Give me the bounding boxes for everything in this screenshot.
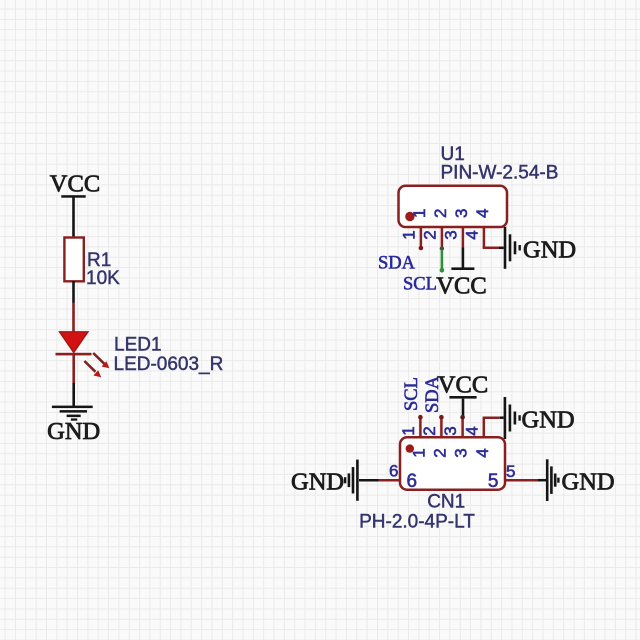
svg-text:4: 4 — [462, 230, 481, 239]
svg-text:1: 1 — [399, 230, 418, 239]
U1 pin 3 — [462, 227, 465, 248]
U1 pin 4 — [483, 227, 486, 248]
svg-text:VCC: VCC — [438, 371, 488, 398]
wire U1 pin 4 to ground — [483, 247, 499, 250]
ground (CN1 pin 5) — [538, 459, 615, 501]
wire SCL net (green) — [440, 246, 445, 272]
svg-text:3: 3 — [452, 209, 471, 218]
svg-text:CN1: CN1 — [427, 492, 465, 513]
svg-text:GND: GND — [523, 237, 576, 264]
CN1 pin 3 end dot — [460, 415, 465, 420]
connector U1 body — [399, 186, 508, 227]
svg-text:PH-2.0-4P-LT: PH-2.0-4P-LT — [359, 511, 475, 532]
svg-text:SDA: SDA — [378, 253, 416, 273]
CN1 pin 1 — [419, 418, 422, 438]
CN1 pin 2 end dot — [439, 415, 444, 420]
svg-text:SCL: SCL — [402, 377, 422, 411]
svg-text:VCC: VCC — [50, 171, 100, 198]
U1 pin 2 — [441, 227, 444, 248]
svg-text:10K: 10K — [86, 268, 120, 289]
CN1 pin 6 — [378, 479, 400, 482]
U1 pin 1 end dot — [419, 246, 424, 251]
CN1 pin 5 — [505, 479, 541, 482]
svg-text:5: 5 — [506, 462, 515, 481]
power flag VCC (left circuit) — [50, 171, 100, 198]
svg-text:3: 3 — [452, 448, 471, 457]
LED LED1 — [56, 303, 110, 384]
svg-text:LED1: LED1 — [114, 335, 162, 356]
CN1 pin-1 orientation dot — [406, 444, 414, 452]
connector CN1 body — [400, 437, 505, 489]
svg-text:1: 1 — [410, 209, 429, 218]
svg-text:2: 2 — [430, 448, 449, 457]
svg-text:2: 2 — [431, 209, 450, 218]
svg-text:PIN-W-2.54-B: PIN-W-2.54-B — [441, 162, 559, 183]
svg-text:GND: GND — [291, 468, 344, 495]
power flag VCC (CN1 pin 3) — [438, 371, 488, 417]
svg-text:GND: GND — [47, 418, 100, 445]
svg-text:GND: GND — [562, 469, 615, 496]
svg-text:VCC: VCC — [436, 273, 486, 300]
svg-text:4: 4 — [473, 448, 492, 457]
svg-text:4: 4 — [473, 209, 492, 218]
wire VCC to R1 — [72, 197, 75, 239]
ground (CN1 pin 4) — [500, 397, 575, 439]
svg-text:6: 6 — [389, 462, 398, 481]
CN1 pin 2 — [440, 418, 443, 438]
svg-text:3: 3 — [441, 426, 460, 435]
wire R1 to LED1 — [72, 281, 75, 303]
svg-text:GND: GND — [522, 406, 575, 433]
power flag VCC (U1 pin 3) — [436, 248, 486, 300]
svg-text:4: 4 — [462, 426, 481, 435]
wire LED1 to ground — [72, 383, 75, 407]
ground (CN1 pin 6) — [291, 460, 379, 501]
svg-text:2: 2 — [420, 230, 439, 239]
ground (left circuit) — [47, 406, 100, 445]
svg-text:1: 1 — [409, 448, 428, 457]
svg-text:2: 2 — [420, 426, 439, 435]
U1 pin 1 — [420, 227, 423, 248]
wire CN1 pin 4 to ground — [483, 416, 500, 419]
svg-text:6: 6 — [407, 471, 418, 492]
resistor R1 — [64, 238, 83, 282]
U1 pin-1 orientation dot — [405, 212, 414, 221]
CN1 pin 1 end dot — [418, 415, 423, 420]
ground (U1 pin 4) — [499, 227, 576, 269]
CN1 pin 4 — [483, 418, 486, 438]
svg-text:1: 1 — [399, 426, 418, 435]
svg-text:LED-0603_R: LED-0603_R — [114, 354, 224, 375]
svg-text:3: 3 — [441, 230, 460, 239]
svg-text:SCL: SCL — [403, 275, 437, 295]
CN1 pin 3 — [461, 418, 464, 438]
svg-text:5: 5 — [488, 471, 499, 492]
